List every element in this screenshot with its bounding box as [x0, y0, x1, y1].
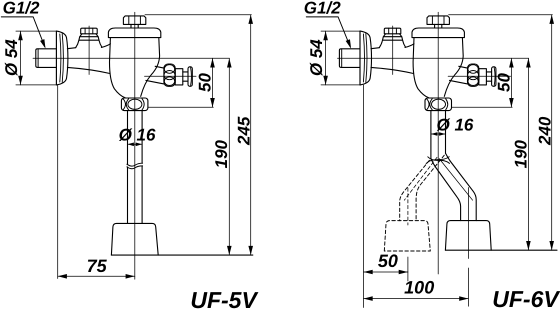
dim 50 bottom reference right — [452, 106, 513, 108]
dashed alternate pipe centerline — [404, 157, 437, 200]
dim 50 handle — [212, 58, 214, 107]
dashed alternate spud base — [384, 221, 430, 251]
dim Ø54 line — [20, 31, 22, 85]
leader G1/2 — [1, 17, 44, 47]
dim Ø16 arrows — [128, 143, 143, 145]
svg-text:G1/2: G1/2 — [3, 0, 40, 18]
svg-text:Ø 16: Ø 16 — [119, 126, 156, 145]
dashed alternate pipe right wall — [416, 155, 444, 220]
vertical centerline — [134, 12, 136, 279]
spud base solid — [445, 221, 491, 251]
dim 50 handle right — [510, 58, 512, 107]
floor baseline — [111, 254, 252, 256]
pipe break squiggle — [127, 163, 143, 166]
dim 245 line — [250, 15, 252, 255]
dim Ø16 arrows right — [431, 133, 446, 135]
wall extension line — [57, 85, 59, 279]
handle axis extension right — [500, 75, 511, 77]
dim 100 line — [364, 298, 469, 300]
dim 190 line — [228, 58, 230, 255]
svg-text:245: 245 — [235, 116, 254, 146]
dim 75 line — [58, 275, 135, 277]
svg-text:190: 190 — [511, 139, 530, 168]
leader G1/2 right — [306, 17, 350, 47]
dashed base extension — [407, 257, 409, 281]
inlet datum centerline — [33, 57, 229, 59]
dim 240 top extension — [449, 14, 553, 16]
svg-text:75: 75 — [87, 256, 108, 276]
wall extension line — [363, 85, 365, 308]
dashed vertical centerline — [407, 188, 409, 225]
svg-text:Ø 54: Ø 54 — [307, 39, 326, 76]
svg-text:190: 190 — [212, 139, 231, 168]
dim 240 line — [551, 15, 553, 251]
svg-text:UF-5V: UF-5V — [190, 287, 258, 309]
offset pipe solid right wall — [446, 153, 477, 220]
dashed alternate pipe left wall — [400, 160, 430, 220]
vertical centerline — [437, 12, 439, 274]
offset pipe centerline — [439, 159, 472, 201]
outlet pipe walls — [431, 111, 446, 159]
dim Ø54 line — [325, 31, 327, 85]
dim 100 right extension — [467, 268, 469, 306]
dim 50 bottom line right figure — [364, 271, 408, 273]
outlet pipe walls — [128, 111, 143, 223]
valve assembly UF-6V — [339, 16, 499, 111]
svg-text:240: 240 — [535, 116, 554, 146]
floor baseline — [445, 249, 557, 251]
svg-text:50: 50 — [495, 73, 514, 92]
svg-text:Ø 16: Ø 16 — [437, 116, 474, 135]
svg-text:UF-6V: UF-6V — [492, 286, 560, 309]
inlet datum centerline — [338, 57, 529, 59]
valve assembly UF-5V — [36, 16, 196, 111]
dim Ø54 extension lines — [16, 31, 56, 85]
outlet vertical centerline right — [467, 188, 469, 259]
dim 245 top extension — [145, 14, 251, 16]
svg-text:Ø 54: Ø 54 — [2, 39, 21, 76]
dim 190 line right — [527, 58, 529, 250]
spud base — [111, 223, 158, 255]
svg-text:100: 100 — [404, 278, 434, 298]
svg-text:50: 50 — [196, 73, 215, 92]
dim 50 bottom reference — [148, 106, 213, 108]
dim Ø54 extension lines — [321, 31, 361, 85]
offset pipe solid left wall — [431, 159, 461, 221]
bend break cross curves — [426, 157, 449, 164]
svg-text:50: 50 — [378, 251, 398, 271]
svg-text:G1/2: G1/2 — [304, 0, 341, 18]
